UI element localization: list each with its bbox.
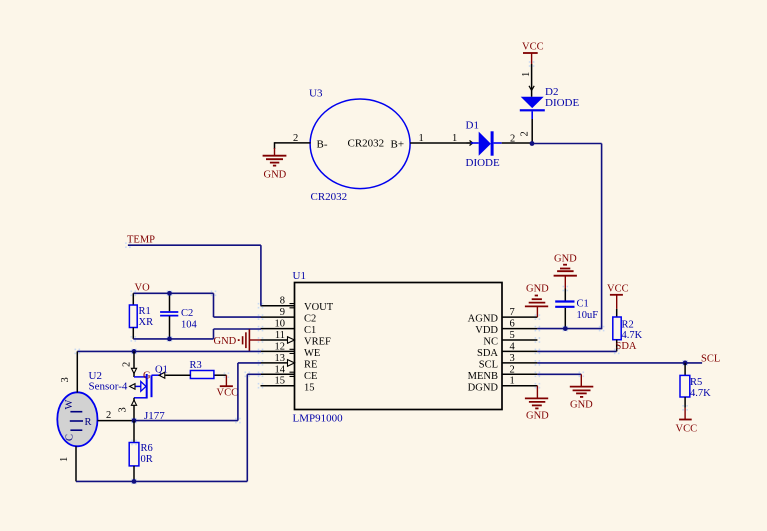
svg-text:10uF: 10uF: [577, 310, 599, 321]
battery U3 CR2032: [309, 88, 410, 204]
svg-text:DIODE: DIODE: [545, 97, 579, 109]
U1 pin 3 SCL: [479, 353, 538, 371]
svg-text:4.7K: 4.7K: [622, 330, 643, 341]
U1 pin 10 C1: [261, 319, 317, 337]
svg-text:DGND: DGND: [468, 383, 499, 394]
ground GND (above C1, flipped): [554, 254, 578, 289]
svg-text:104: 104: [181, 320, 198, 331]
svg-text:VREF: VREF: [304, 337, 331, 348]
svg-text:B-: B-: [317, 139, 328, 151]
svg-text:C1: C1: [577, 299, 589, 310]
ground GND (MENB): [570, 387, 594, 411]
svg-text:13: 13: [275, 353, 286, 364]
svg-text:R6: R6: [141, 443, 153, 454]
wire D1 pin2 to junction: [502, 134, 532, 145]
svg-text:10: 10: [275, 319, 286, 330]
svg-text:W: W: [64, 400, 75, 410]
svg-text:R5: R5: [690, 377, 702, 388]
svg-text:GND: GND: [214, 336, 237, 347]
node junction D1/D2: [530, 141, 535, 146]
node WE junction: [132, 349, 137, 354]
wire sensor pin2 net to U1 pin 13 RE: [134, 363, 261, 421]
svg-text:AGND: AGND: [468, 314, 499, 325]
U1 pin 2 MENB: [468, 365, 538, 383]
svg-text:11: 11: [275, 330, 285, 341]
svg-text:R2: R2: [622, 320, 634, 331]
capacitor C2: [160, 293, 197, 339]
node C2 bottom junction: [167, 337, 172, 342]
transistor Q1 J177: [130, 371, 166, 423]
power VCC (above R2): [607, 284, 629, 309]
resistor R6: [129, 421, 153, 482]
node SCL/R5 junction: [683, 361, 688, 366]
U1 pin 1 DGND: [468, 376, 538, 394]
svg-text:SDA: SDA: [616, 341, 637, 352]
wire DGND (U1 pin 1): [536, 386, 538, 398]
wire battery B+ to diode D1: [410, 133, 473, 146]
wire MENB (U1 pin 2): [537, 374, 581, 386]
svg-text:MENB: MENB: [468, 371, 498, 382]
svg-text:C2: C2: [304, 314, 316, 325]
svg-text:SCL: SCL: [479, 360, 498, 371]
op-amp IC U1 LMP91000 body: [293, 270, 503, 425]
battery pin 2 wire to GND: [275, 133, 311, 156]
svg-text:7: 7: [510, 307, 515, 318]
U1 pin 6 VDD: [475, 319, 537, 337]
svg-text:C2: C2: [181, 308, 193, 319]
svg-text:Q1: Q1: [155, 365, 168, 376]
svg-text:VCC: VCC: [522, 42, 544, 53]
svg-text:0R: 0R: [141, 454, 153, 465]
resistor R3: [190, 360, 214, 379]
wire VO net (R1/C2 top) to U1 pin 9: [133, 293, 261, 317]
ground GND (VREF, rotated): [214, 329, 261, 351]
U1 pin 11 VREF: [261, 330, 332, 348]
svg-text:D1: D1: [466, 120, 479, 132]
svg-text:GND: GND: [554, 254, 577, 265]
wire Q1 pin 2 drop: [122, 351, 137, 377]
resistor R2: [613, 309, 643, 352]
wire sensor pin 3 (top): [60, 351, 77, 392]
svg-text:Sensor-4: Sensor-4: [89, 381, 128, 393]
svg-text:VCC: VCC: [676, 424, 698, 435]
svg-text:DIODE: DIODE: [466, 157, 500, 169]
wire Q1 drain to R3: [152, 365, 191, 379]
diode D2: [520, 86, 580, 119]
svg-text:8: 8: [280, 296, 285, 307]
svg-text:U1: U1: [293, 270, 306, 282]
wire sensor pin 2 (right): [98, 410, 135, 421]
svg-text:TEMP: TEMP: [127, 235, 155, 246]
svg-text:4: 4: [510, 342, 516, 353]
wire D2 pin2 to junction: [520, 119, 533, 143]
wire bottom net to U1 pin 14 CE: [76, 374, 261, 481]
U1 pin 8 VOUT: [261, 296, 334, 314]
svg-text:1: 1: [419, 133, 424, 144]
svg-text:R: R: [85, 417, 92, 428]
svg-text:2: 2: [510, 365, 515, 376]
svg-text:1: 1: [452, 133, 457, 144]
svg-text:G: G: [143, 371, 151, 382]
svg-text:RE: RE: [304, 360, 317, 371]
power VCC (below R5): [676, 408, 698, 435]
svg-text:LMP91000: LMP91000: [293, 413, 344, 425]
svg-text:R3: R3: [190, 360, 202, 371]
svg-text:U3: U3: [309, 88, 323, 100]
svg-text:6: 6: [510, 319, 515, 330]
U1 pin 13 RE: [261, 353, 318, 371]
svg-text:CR2032: CR2032: [348, 138, 385, 150]
svg-text:3: 3: [60, 377, 71, 382]
wire SCL (U1 pin 3): [537, 362, 702, 364]
svg-text:2: 2: [510, 134, 515, 145]
node C2 top junction: [167, 291, 172, 296]
svg-text:VO: VO: [135, 283, 151, 294]
svg-text:14: 14: [275, 365, 286, 376]
U1 pin 4 SDA: [477, 342, 537, 360]
svg-text:NC: NC: [483, 337, 498, 348]
U1 pin 12 WE: [261, 342, 321, 360]
svg-text:1: 1: [521, 72, 532, 77]
svg-text:B+: B+: [391, 139, 405, 151]
svg-text:GND: GND: [264, 170, 287, 181]
svg-text:VDD: VDD: [475, 325, 498, 336]
svg-text:15: 15: [275, 376, 286, 387]
U1 pin 9 C2: [261, 307, 317, 325]
wire junction to VDD rail (right and down): [532, 144, 602, 330]
svg-text:3: 3: [510, 353, 515, 364]
svg-text:XR: XR: [139, 317, 154, 328]
U1 pin 14 CE: [261, 365, 318, 383]
wire SDA (U1 pin 4): [537, 350, 616, 352]
svg-text:C1: C1: [304, 325, 316, 336]
svg-text:CE: CE: [304, 371, 317, 382]
node C1/VDD junction: [563, 326, 568, 331]
wire TEMP to U1 pin 8: [128, 245, 261, 306]
node sensor pin2 junction: [132, 418, 137, 423]
svg-text:1: 1: [510, 376, 515, 387]
svg-text:1: 1: [59, 457, 70, 462]
ground GND (battery): [263, 156, 287, 181]
wire sensor pin 1 (bottom): [59, 446, 76, 481]
U1 pin 7 AGND: [468, 307, 538, 325]
svg-text:15: 15: [304, 383, 315, 394]
ground GND (U1 pin 7 AGND, flipped): [525, 284, 549, 318]
diode D1: [466, 120, 502, 170]
svg-text:12: 12: [275, 342, 286, 353]
svg-text:SDA: SDA: [477, 348, 498, 359]
svg-text:SCL: SCL: [701, 354, 720, 365]
svg-text:CR2032: CR2032: [311, 191, 348, 203]
svg-text:GND: GND: [570, 400, 593, 411]
svg-text:3: 3: [118, 407, 129, 412]
power VCC (top, above D2): [522, 42, 544, 65]
resistor R1: [129, 293, 153, 339]
wire WE net (sensor pin3 / Q1 / U1 pin 12): [77, 350, 261, 352]
resistor R5: [680, 363, 711, 408]
sensor U2 Sensor-4: [57, 370, 128, 446]
wire VCC to D2 pin 1: [521, 64, 534, 97]
ground GND (U1 pin 1 DGND): [525, 398, 549, 421]
svg-text:2: 2: [520, 131, 531, 136]
wire R1/C2 bottom to U1 pin 10: [133, 329, 261, 339]
capacitor C1: [555, 289, 598, 329]
net label VCC (R3): [214, 375, 238, 398]
svg-text:9: 9: [280, 307, 285, 318]
svg-text:VOUT: VOUT: [304, 302, 334, 313]
svg-text:WE: WE: [304, 348, 320, 359]
svg-text:R1: R1: [139, 306, 151, 317]
svg-text:VCC: VCC: [217, 388, 239, 399]
svg-text:2: 2: [106, 410, 111, 421]
svg-text:2: 2: [122, 362, 133, 367]
wire VDD net (U1 pin 6): [537, 328, 601, 330]
svg-text:GND: GND: [526, 411, 549, 422]
grid snap dots (decorative): [75, 61, 688, 484]
svg-text:C: C: [65, 434, 76, 441]
svg-text:4.7K: 4.7K: [690, 388, 711, 399]
wire Q1 pin 3 drop to node: [118, 398, 137, 421]
U1 pin 15: [261, 376, 315, 394]
U1 pin 5 NC: [483, 330, 537, 348]
svg-text:VCC: VCC: [607, 284, 629, 295]
svg-text:5: 5: [510, 330, 515, 341]
node R6 bottom junction: [132, 479, 137, 484]
svg-text:GND: GND: [526, 284, 549, 295]
